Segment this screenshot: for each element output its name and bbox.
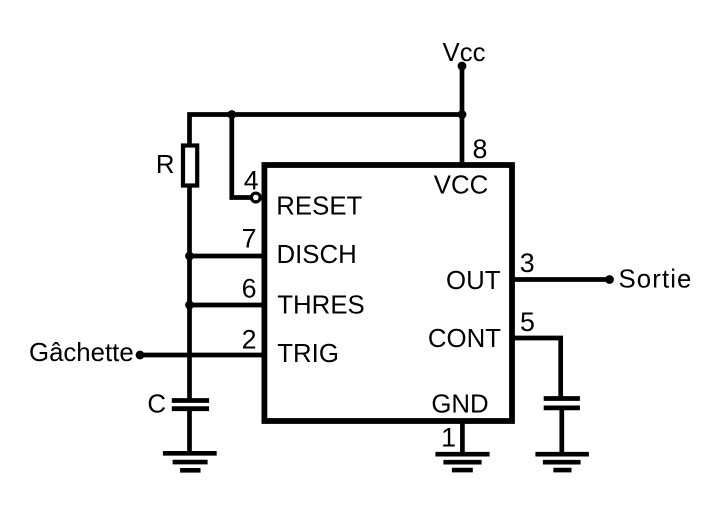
svg-text:3: 3 — [520, 248, 535, 278]
svg-text:6: 6 — [242, 274, 257, 304]
wire Vcc stub to pin 8 — [460, 66, 465, 166]
svg-text:VCC: VCC — [434, 172, 488, 200]
wire OUT pin 3 to Sortie — [513, 277, 609, 282]
wire THRES pin 6 — [190, 303, 264, 308]
ground (below capacitor C) — [163, 453, 217, 470]
capacitor C plates — [172, 401, 209, 409]
svg-text:8: 8 — [473, 134, 488, 164]
svg-text:GND: GND — [431, 391, 488, 419]
node junction top rail / pin4 branch — [227, 110, 236, 119]
node junction top rail / Vcc — [458, 110, 467, 119]
ground (below CONT capacitor) — [535, 454, 589, 470]
wire top horizontal rail + left rail upper corner — [190, 115, 463, 147]
wire capacitor C to ground — [187, 410, 192, 453]
svg-text:TRIG: TRIG — [277, 340, 339, 368]
resistor R — [183, 146, 197, 186]
svg-text:Vcc: Vcc — [442, 39, 485, 67]
wire left rail lower (resistor to capacitor C) — [187, 186, 192, 400]
pin 4 RESET inverting circle — [251, 193, 260, 202]
node junction DISCH / left rail — [185, 252, 194, 261]
node junction THRES / left rail — [185, 301, 194, 310]
wire right capacitor to ground — [559, 410, 564, 454]
svg-text:DISCH: DISCH — [277, 241, 357, 269]
svg-text:THRES: THRES — [277, 292, 364, 320]
wire TRIG pin 2 — [140, 353, 263, 358]
svg-text:5: 5 — [520, 307, 535, 337]
svg-text:Sortie: Sortie — [619, 266, 693, 294]
svg-text:2: 2 — [242, 325, 257, 355]
svg-text:R: R — [156, 151, 175, 179]
node Sortie terminal dot — [605, 275, 614, 284]
svg-text:7: 7 — [242, 224, 257, 254]
wire pin4 branch (junction down then right to RESET circle) — [232, 112, 251, 198]
wire DISCH pin 7 — [190, 254, 264, 259]
wire GND pin 1 to ground — [460, 421, 465, 454]
svg-text:1: 1 — [441, 423, 456, 453]
op-amp U1 555 IC body — [264, 165, 512, 421]
svg-text:CONT: CONT — [428, 325, 501, 353]
svg-text:Gâchette: Gâchette — [29, 339, 134, 367]
svg-text:4: 4 — [244, 165, 259, 195]
capacitor C2 (CONT bypass) plates — [544, 399, 580, 408]
wire CONT pin 5 (right then down to capacitor) — [513, 338, 561, 398]
node Gâchette terminal dot — [136, 351, 145, 360]
ground (below pin 1 GND) — [435, 454, 489, 470]
node Vcc terminal dot — [458, 62, 467, 71]
svg-text:C: C — [147, 391, 166, 419]
svg-text:OUT: OUT — [446, 267, 501, 295]
svg-text:RESET: RESET — [276, 193, 362, 221]
